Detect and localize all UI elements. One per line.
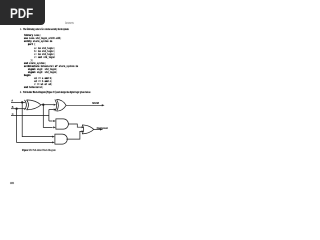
PDF badge label (10, 5, 33, 21)
wire Carryout (94, 128, 101, 130)
xor-gate U1 (A xor B) (25, 100, 27, 110)
node B junction dot (15, 108, 17, 110)
arrowhead into XOR2 top input (54, 104, 57, 106)
page number (10, 181, 14, 185)
arrowhead into XOR2 bottom input (54, 109, 57, 111)
wire input C (11, 114, 49, 116)
arrowhead into AND1 top input (53, 120, 56, 122)
full adder circuit diagram (0, 0, 149, 198)
question 2 text (20, 91, 91, 94)
wire AND1 output to OR (68, 124, 82, 127)
wire input B (11, 108, 26, 110)
and-gate U4 (55, 134, 67, 144)
question 1 text (20, 28, 69, 31)
wire A branch down to AND2 (22, 102, 52, 136)
arrowhead SUM (102, 104, 105, 106)
wire C tee up to XOR2, down to AND1 (49, 110, 54, 122)
figure caption (22, 148, 56, 152)
node A junction dot (21, 101, 23, 103)
wire XOR1 output to XOR2 (41, 104, 54, 106)
arrowhead Carryout (100, 128, 103, 130)
node XOR1-out junction dot (42, 104, 44, 106)
svg-text:SUM: SUM (92, 101, 99, 105)
wire AND2 output to OR (66, 131, 82, 139)
arrowhead into OR top input (82, 126, 85, 128)
PDF badge (0, 0, 45, 25)
wire B branch down to AND2 (17, 109, 53, 143)
arrowhead into OR bottom input (82, 130, 85, 132)
svg-text:Carryout: Carryout (97, 126, 108, 130)
Answers faint header (65, 21, 74, 25)
and-gate U3 (56, 119, 69, 129)
VHDL code block (24, 34, 78, 89)
or-gate U5 (carry) (82, 125, 84, 134)
arrowhead into AND1 bottom input (53, 126, 56, 128)
wire XOR1-out branch down to AND1 (43, 105, 52, 128)
xor-gate U2 (sum) (55, 99, 57, 111)
arrowhead into AND2 top input (52, 136, 55, 138)
arrowhead into AND2 bottom input (52, 141, 55, 143)
wire input A (11, 101, 25, 103)
wire SUM output (66, 104, 102, 106)
